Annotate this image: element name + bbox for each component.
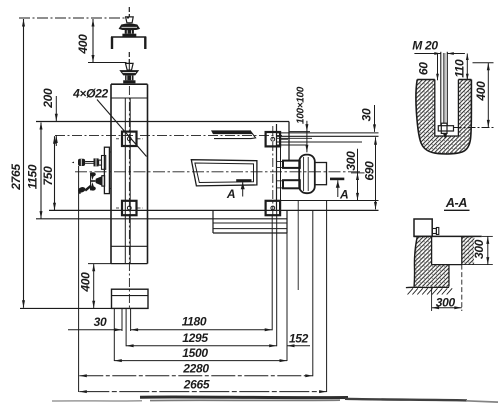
A-A hatched concrete (left L) [414,236,449,286]
ram fork lower bar [283,180,300,188]
mystery vertical ext [297,201,299,291]
column lower block lines [111,245,148,247]
floor line [414,235,482,237]
reference line at second bolt [93,62,127,64]
handwheel (lower left, edge view) [77,172,104,193]
small crank handle [85,186,91,191]
head centreline [454,127,494,129]
M20 bolt detail: concrete with hatch [416,80,471,154]
work table (plan) outer [191,160,257,186]
svg-text:200: 200 [41,88,55,109]
section arrow A (right) [330,178,344,181]
svg-text:A: A [339,188,348,202]
saddle edge [288,122,290,161]
svg-text:30: 30 [359,108,373,121]
svg-text:4×Ø22: 4×Ø22 [72,86,108,100]
section arrow A (lower, at table) [236,179,251,182]
svg-text:152: 152 [289,331,309,345]
base fixing lug [432,229,436,234]
pit walls [434,80,436,137]
anchor bolt symbol (second, on column top) [119,52,139,83]
svg-text:2280: 2280 [182,362,209,376]
svg-text:400: 400 [76,34,90,55]
svg-text:400: 400 [78,272,92,293]
pit outline [431,236,433,264]
ext line for bottom 300 [461,265,463,311]
connecting ticks [277,161,284,163]
dim row 2 : 1295 and 152 [126,345,277,347]
ram fork upper bar [283,161,300,168]
lower slide (below bed) [212,210,214,233]
svg-text:30: 30 [94,315,107,329]
dimension 300 (A-A depth) [482,235,493,237]
dimension 100x100 [306,121,308,153]
dim row 5 : 2665 [79,391,326,393]
bed top edge [36,121,289,123]
dimension 300 (A-A width) [432,307,462,309]
A-A machine base [414,219,432,236]
right bolt column axis [272,126,274,217]
svg-text:2665: 2665 [183,377,210,391]
column centre axis (vertical dash-dot) [128,86,130,309]
anchor bolt symbol (top, with handwheel) [119,7,141,37]
bolt channel [448,265,450,287]
anchor pad top-right [266,132,281,146]
svg-text:400: 400 [474,81,488,102]
anchor pad top-left [122,132,137,146]
top bolt row centreline (dash-dot) [55,134,282,136]
dimension 400 (top anchor bolt spacing) [92,19,94,63]
svg-text:300: 300 [436,295,456,309]
anchor pad bottom-right [266,201,281,215]
scanner edge artifacts at page bottom [140,395,348,399]
hand lever (upper left) [72,156,106,170]
concrete outline [416,80,471,154]
anchor pad bottom-left [122,201,137,215]
right band lines [277,132,379,134]
dimension 60 [437,54,439,81]
dimension 400 (bolt embed) [473,62,494,64]
machine column (plan) [111,83,148,85]
anchor head [438,126,453,131]
ref tick [88,263,111,265]
left side plate on column [104,147,109,193]
svg-text:1150: 1150 [25,164,39,189]
surface lines [417,79,435,81]
foundation outer bottom edge [36,218,287,220]
extension lines to bottom dimension rows [78,166,80,392]
dim row 1 : 30 and 1180 [68,329,122,331]
svg-text:1500: 1500 [182,346,208,360]
dim row 4 : 2280 [79,375,312,377]
svg-text:60: 60 [416,62,430,75]
pad edge vertical [280,146,282,201]
main horizontal centreline [75,171,362,173]
reference tick for 400 dim [88,62,127,64]
line y=200.5 (bolt row lower right) [277,200,379,202]
svg-text:2765: 2765 [9,164,23,191]
svg-text:100×100: 100×100 [295,86,306,124]
svg-text:750: 750 [41,166,55,186]
svg-text:300: 300 [344,151,358,171]
foundation pocket bracket (top) [111,36,146,38]
ram round column (capsule) [299,155,315,194]
dimension 750 [54,136,56,210]
column foot pad [112,289,149,308]
svg-text:690: 690 [362,161,376,181]
dimension 110 [466,54,468,81]
dash-dot top reference line [19,17,129,19]
dim row 3 : 1500 [114,360,287,362]
leader 4xO22 to anchor pad [97,100,147,157]
bed right edge [276,124,278,210]
dimension 30 (top right) [374,105,376,132]
chip deflector blade [211,130,252,134]
foundation/bed bottom edge [49,209,379,211]
foot bottom / 2765 ref line [20,307,112,309]
work table inner [195,163,254,183]
dimension 1150 [40,123,42,219]
svg-text:M 20: M 20 [412,39,438,53]
dimension 2765 (overall height) [23,19,25,308]
svg-text:110: 110 [452,59,466,78]
dimension 300 (right of plan) [357,149,359,201]
anchor bolt slot lines in column [124,98,126,264]
svg-text:1295: 1295 [182,331,208,345]
ram right block [315,163,327,185]
svg-text:1180: 1180 [182,314,207,328]
svg-text:A-A: A-A [445,196,468,210]
svg-text:A: A [226,187,235,201]
M20 stud [440,52,442,126]
dimension 200 [55,96,57,121]
svg-text:300: 300 [472,239,486,259]
A-A hatched concrete (right band) [462,236,475,264]
foundation broken bottom [406,286,449,288]
dimension 400 (bottom left, column foot) [93,264,95,309]
ground hatch strokes [408,288,414,294]
column inner line [111,97,148,99]
dimension 690 [375,137,377,209]
